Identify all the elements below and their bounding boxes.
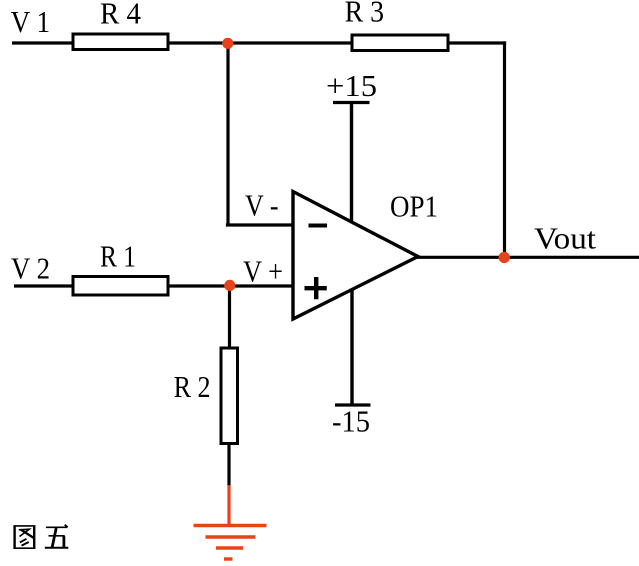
wire: op-amp bottom to -15: [350, 289, 353, 405]
op-amp non-inverting input plus sign: [305, 277, 327, 299]
wire: R3 right to top-right corner: [448, 41, 506, 44]
wire: node B down to R2 top: [228, 286, 231, 348]
svg-text:Vout: Vout: [534, 221, 596, 256]
power -15 bar: [335, 403, 371, 406]
svg-text:-15: -15: [332, 404, 370, 439]
resistor R4: [73, 34, 168, 50]
svg-text:V -: V -: [245, 188, 279, 223]
svg-text:R 4: R 4: [100, 0, 141, 31]
svg-text:R 2: R 2: [174, 369, 211, 404]
resistor R1: [73, 277, 168, 296]
wire: right rail down to output node C: [503, 41, 506, 257]
label 图五 (Figure 5 caption): [14, 525, 69, 549]
svg-text:+15: +15: [326, 68, 377, 103]
wire: node A down toward V-: [226, 43, 229, 225]
power +15 bar: [333, 101, 370, 104]
svg-text:R 3: R 3: [345, 0, 385, 29]
node A junction dot: [222, 38, 233, 49]
svg-text:OP1: OP1: [390, 189, 438, 224]
svg-text:V 2: V 2: [11, 251, 50, 286]
svg-text:R 1: R 1: [100, 239, 136, 274]
wire: +15 to op-amp top: [350, 103, 353, 223]
wire: R2 bottom to ground stem (black): [227, 444, 230, 486]
resistor R3: [352, 35, 448, 51]
node C output junction dot: [499, 252, 510, 263]
svg-text:V 1: V 1: [11, 4, 51, 39]
ground: [194, 526, 267, 560]
resistor R2: [221, 348, 238, 444]
wire: node C to right edge (Vout): [504, 256, 639, 259]
svg-text:V +: V +: [243, 254, 283, 289]
wire: R4 right through node A to R3 left (top rail): [168, 41, 352, 44]
op-amp inverting input minus sign: [309, 224, 328, 228]
wire: R1 right through node B to op-amp V+ input: [168, 284, 293, 287]
wire: V2 input to R1 left: [14, 284, 74, 287]
node B junction dot: [224, 280, 235, 291]
wire: op-amp output to node C: [416, 256, 504, 259]
wire: V- horizontal into op-amp inverting input: [226, 223, 293, 226]
wire: ground stem (red): [227, 485, 230, 526]
op-amp U1 (OP1): [293, 192, 418, 320]
wire: V1 input to R4 left: [12, 41, 74, 44]
